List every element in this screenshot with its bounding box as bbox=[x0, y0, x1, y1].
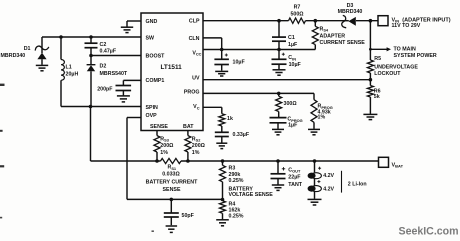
resistor R5 undervoltage lockout bbox=[367, 60, 373, 73]
svg-text:RS2: RS2 bbox=[192, 136, 201, 142]
ground below COUT bbox=[272, 184, 284, 186]
terminal VIN box bbox=[378, 16, 388, 26]
wire CLP rail bbox=[203, 20, 289, 22]
node R3 top bbox=[221, 159, 225, 163]
svg-text:CIN: CIN bbox=[288, 55, 296, 61]
scan speck 3 bbox=[0, 165, 4, 167]
svg-text:OVP: OVP bbox=[146, 113, 158, 119]
svg-text:SeekIC.com: SeekIC.com bbox=[399, 226, 459, 238]
node CIN top bbox=[277, 48, 281, 52]
wire VIN down leg bbox=[369, 21, 371, 60]
svg-text:11V TO 29V: 11V TO 29V bbox=[392, 23, 421, 29]
cell 1 plus bbox=[318, 167, 321, 169]
svg-text:C2: C2 bbox=[100, 42, 107, 48]
10uF plus sign bbox=[225, 54, 228, 56]
resistor RS2 200 ohm 1% bbox=[187, 131, 189, 136]
node system power tap bbox=[369, 48, 372, 51]
svg-text:SENSE: SENSE bbox=[163, 187, 181, 193]
wire VCC rail bbox=[203, 49, 315, 51]
svg-text:0.25%: 0.25% bbox=[229, 213, 244, 219]
svg-text:200pF: 200pF bbox=[97, 86, 113, 92]
svg-text:VC: VC bbox=[193, 104, 200, 110]
ground below CIN bbox=[273, 69, 286, 71]
svg-text:2 Li-Ion: 2 Li-Ion bbox=[348, 181, 367, 187]
capacitor C1 1uF bbox=[278, 21, 280, 37]
resistor RS1 0.033 ohm bbox=[161, 158, 182, 163]
svg-text:0.33µF: 0.33µF bbox=[233, 132, 250, 138]
svg-text:TANT: TANT bbox=[288, 182, 302, 188]
svg-text:MBRD340: MBRD340 bbox=[1, 53, 26, 59]
wire GND pin to ground bbox=[127, 20, 141, 22]
inductor L1 20uH bbox=[60, 37, 62, 60]
svg-text:R3: R3 bbox=[229, 166, 236, 172]
wire battery rail (BAT net) bbox=[91, 160, 161, 162]
svg-text:50pF: 50pF bbox=[182, 213, 195, 219]
ground below RPROG bbox=[308, 128, 320, 130]
svg-text:CURRENT SENSE: CURRENT SENSE bbox=[320, 40, 366, 46]
ground at GND pin bbox=[121, 26, 133, 28]
capacitor 10uF at VCC bbox=[221, 50, 223, 60]
svg-text:UNDERVOLTAGE: UNDERVOLTAGE bbox=[374, 64, 418, 70]
svg-text:L1: L1 bbox=[66, 65, 72, 71]
diode D3 MBRD340 bbox=[344, 20, 349, 22]
svg-text:RS4: RS4 bbox=[320, 26, 329, 32]
capacitor CPROG 1uF bbox=[270, 117, 287, 119]
ground below R4 bbox=[216, 219, 229, 221]
svg-text:UV: UV bbox=[192, 75, 200, 81]
wire VC jog bbox=[203, 106, 222, 108]
wire SW rail bbox=[42, 36, 141, 38]
svg-text:VCC: VCC bbox=[192, 50, 201, 56]
node C1 top bbox=[277, 19, 281, 23]
resistor 1k bbox=[219, 114, 225, 126]
battery bracket line bbox=[341, 171, 343, 193]
svg-text:1µF: 1µF bbox=[288, 122, 298, 128]
svg-text:1µF: 1µF bbox=[288, 42, 298, 48]
svg-text:BAT: BAT bbox=[183, 124, 194, 130]
svg-text:0.25%: 0.25% bbox=[229, 178, 244, 184]
svg-text:0.47µF: 0.47µF bbox=[100, 48, 117, 54]
resistor RS3 200 ohm 1% bbox=[156, 131, 158, 136]
svg-text:SW: SW bbox=[146, 35, 155, 41]
svg-text:20µH: 20µH bbox=[66, 72, 79, 78]
svg-text:RS1: RS1 bbox=[168, 165, 177, 171]
node COUT junction bbox=[276, 159, 280, 163]
svg-text:5k: 5k bbox=[374, 94, 380, 100]
svg-text:LOCKOUT: LOCKOUT bbox=[374, 71, 401, 77]
svg-text:1%: 1% bbox=[160, 150, 168, 156]
svg-text:BOOST: BOOST bbox=[146, 54, 166, 60]
svg-text:500Ω: 500Ω bbox=[290, 11, 304, 17]
resistor 300 ohm bbox=[278, 93, 280, 96]
ground below battery bbox=[308, 198, 322, 200]
node SW-C2 junction bbox=[89, 35, 93, 39]
capacitor 200pF bbox=[116, 85, 132, 87]
wire COMP1 to 200pF bbox=[123, 79, 141, 81]
scan speck 5 bbox=[152, 230, 154, 232]
wire CLN jog bbox=[203, 37, 222, 39]
svg-text:22µF: 22µF bbox=[288, 174, 301, 180]
svg-text:LT1511: LT1511 bbox=[161, 64, 183, 71]
svg-text:CLP: CLP bbox=[189, 19, 200, 25]
wire UV rail bbox=[203, 79, 370, 81]
svg-text:SPIN: SPIN bbox=[146, 105, 159, 111]
terminal VBAT box bbox=[379, 157, 389, 167]
capacitor 50pF bbox=[170, 199, 172, 212]
CIN plus sign bbox=[282, 53, 285, 55]
node RS2 bottom bbox=[186, 159, 190, 163]
resistor R6 5k bbox=[369, 80, 371, 86]
cell 2 plus bbox=[317, 181, 320, 183]
ground below 50pF bbox=[166, 225, 178, 227]
wire to main system power arrow bbox=[370, 48, 387, 50]
svg-text:300Ω: 300Ω bbox=[284, 101, 298, 107]
svg-text:0.033Ω: 0.033Ω bbox=[162, 171, 180, 177]
svg-text:MBRS540T: MBRS540T bbox=[100, 71, 128, 77]
node 50pF tap bbox=[170, 198, 174, 202]
svg-text:RS3: RS3 bbox=[160, 136, 169, 142]
node VIN junction bbox=[369, 19, 373, 23]
node RS3 bottom bbox=[155, 159, 159, 163]
svg-text:PROG: PROG bbox=[184, 90, 200, 96]
diode D1 MBRD340 bbox=[41, 37, 43, 53]
battery cell 2 4.2V bbox=[314, 179, 316, 186]
node R3-R4 OVP tap bbox=[221, 198, 225, 202]
svg-text:4.2V: 4.2V bbox=[323, 173, 334, 179]
svg-text:D3: D3 bbox=[347, 3, 354, 9]
resistor RPROG 4.93k 1% bbox=[313, 93, 315, 99]
resistor R3 290k 0.25% bbox=[222, 161, 224, 165]
diode D2 MBRS540T bbox=[90, 56, 92, 65]
svg-text:200Ω: 200Ω bbox=[160, 143, 174, 149]
capacitor COUT 22uF TANT bbox=[277, 161, 279, 174]
svg-text:4.2V: 4.2V bbox=[323, 186, 334, 192]
wire SPIN rail bbox=[61, 106, 141, 108]
ground below 10uF bbox=[215, 70, 228, 72]
op-amp U1 LT1511 battery charger IC body bbox=[141, 13, 203, 131]
svg-text:10µF: 10µF bbox=[289, 62, 302, 68]
svg-text:1%: 1% bbox=[318, 115, 326, 121]
wire PROG rail bbox=[203, 92, 314, 94]
svg-text:SYSTEM POWER: SYSTEM POWER bbox=[394, 53, 437, 59]
scan speck 1 bbox=[0, 84, 5, 86]
svg-text:R5: R5 bbox=[374, 56, 381, 62]
COUT plus sign bbox=[282, 168, 285, 170]
svg-text:BATTERY CURRENT: BATTERY CURRENT bbox=[146, 180, 198, 186]
svg-text:C1: C1 bbox=[288, 35, 295, 41]
ground below 200pF bbox=[117, 95, 130, 97]
svg-text:200Ω: 200Ω bbox=[192, 143, 206, 149]
node BOOST-C2-D2 junction bbox=[89, 54, 93, 58]
svg-text:D1: D1 bbox=[24, 46, 31, 52]
scan speck 4 bbox=[0, 217, 2, 219]
svg-text:COMP1: COMP1 bbox=[146, 78, 165, 84]
svg-text:VBAT: VBAT bbox=[392, 162, 404, 168]
svg-text:TO MAIN: TO MAIN bbox=[394, 46, 416, 52]
svg-text:CLN: CLN bbox=[189, 36, 200, 42]
capacitor 0.33uF bbox=[215, 131, 229, 133]
node 300ohm top bbox=[277, 92, 281, 96]
svg-text:SENSE: SENSE bbox=[150, 124, 168, 130]
wire BOOST rail bbox=[91, 55, 141, 57]
svg-text:GND: GND bbox=[146, 19, 158, 25]
svg-text:D2: D2 bbox=[100, 64, 107, 70]
ground below 0.33uF bbox=[216, 142, 227, 144]
scan speck 2 bbox=[0, 130, 3, 132]
node battery junction bbox=[313, 159, 317, 163]
wire OVP to divider tap bbox=[127, 117, 141, 119]
node SPIN junction bbox=[89, 105, 93, 109]
svg-text:COUT: COUT bbox=[288, 167, 301, 173]
node VCC-CLN junction bbox=[220, 48, 224, 52]
capacitor CIN 10uF bbox=[278, 50, 280, 60]
svg-text:1%: 1% bbox=[192, 150, 200, 156]
svg-text:ADAPTER: ADAPTER bbox=[320, 33, 346, 39]
svg-text:R7: R7 bbox=[294, 5, 301, 11]
wire cell2 to ground bbox=[314, 192, 316, 199]
ground below R6 bbox=[363, 113, 377, 115]
resistor R4 162k 0.25% bbox=[220, 201, 226, 214]
svg-text:1k: 1k bbox=[227, 116, 233, 122]
svg-text:MBRD340: MBRD340 bbox=[338, 9, 363, 15]
svg-text:VOLTAGE SENSE: VOLTAGE SENSE bbox=[229, 192, 274, 198]
ground below CPROG bbox=[272, 128, 284, 130]
battery cell 1 4.2V bbox=[314, 161, 316, 172]
ground below D1 bbox=[36, 64, 48, 66]
resistor RS4 adapter current sense bbox=[314, 21, 316, 27]
node RS4 top bbox=[314, 19, 318, 23]
svg-text:10µF: 10µF bbox=[233, 59, 246, 65]
node SW-L1 junction bbox=[59, 35, 63, 39]
node UV junction bbox=[369, 78, 373, 82]
resistor R7 500 ohm bbox=[289, 18, 306, 23]
wire SPIN junction down to bottom rail bbox=[90, 107, 92, 162]
capacitor C2 0.47uF bbox=[90, 37, 92, 43]
